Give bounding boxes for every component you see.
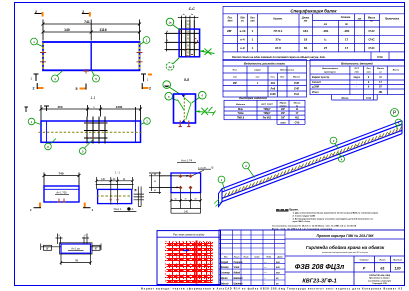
detail B plan outline [98,189,132,203]
svg-text:Кол.уч: Кол.уч [234,256,241,258]
detail C plate outline [171,173,201,193]
mesh band inner dashes [168,245,211,282]
svg-text:хххх: хххх [280,121,286,124]
beam left edge dashed rebar line [42,43,44,70]
svg-text:д 28М: д 28М [312,86,319,89]
svg-text:29Г: 29Г [281,117,286,120]
svg-text:к-9: к-9 [240,46,245,50]
svg-text:Наимен.: Наимен. [273,19,283,21]
callout circle bottom middle [92,71,100,83]
fittings header [236,103,301,108]
dimension extension lines [43,20,140,41]
svg-text:27а: 27а [275,38,280,42]
C-C centerline dashed [187,20,189,57]
svg-text:Формат вывода: чертеж сформиро: Формат вывода: чертеж сформирован в Auto… [141,288,403,291]
svg-text:1 - 1: 1 - 1 [115,172,120,175]
svg-text:17: 17 [345,38,349,42]
S-S centerline dashed [183,95,185,123]
beam elevation view outline [43,42,140,70]
svg-text:1200: 1200 [116,105,123,109]
svg-text:29Г: 29Г [281,108,286,111]
C-C brown stirrup marks [180,30,198,56]
svg-text:Р: Р [363,267,366,271]
svg-text:29Г: 29Г [281,112,286,115]
S-S callout circle top left [163,81,180,95]
organization cell [368,275,392,285]
svg-text:Б: Б [212,166,214,170]
svg-text:Всего: Всего [393,70,400,72]
узел bottom dim [60,253,92,265]
beam elevation middle joint line [90,43,92,70]
C-C section outline [179,29,200,57]
svg-text:481: 481 [295,117,300,120]
detail A dimension line 740 [43,173,81,187]
svg-text:5-5: 5-5 [184,78,189,82]
svg-text:Масса: Масса [294,103,301,105]
svg-text:Узел 1: Узел 1 [114,207,122,211]
svg-text:А: А [132,207,134,211]
svg-text:Лист: Лист [378,260,385,262]
svg-text:2x38: 2x38 [270,93,276,96]
svg-text:шт: шт [250,21,254,23]
svg-text:Обо: Обо [240,17,245,20]
svg-text:5: 5 [76,87,78,91]
svg-text:Обозначение: Обозначение [280,69,295,72]
detail C arrows to holes [159,176,188,188]
svg-text:Ат-1 700: Ат-1 700 [56,191,67,195]
specification data rows [227,29,376,50]
bottom cut symbol 5 middle [80,88,87,90]
svg-text:Смелов: Смелов [234,262,243,264]
S-S top triangle mark [181,94,186,97]
1-1 end plates [47,122,136,143]
svg-text:4и: 4и [168,65,172,69]
title block outer [219,230,405,286]
svg-text:СЧП: СЧП [294,88,299,91]
svg-text:Лн8: Лн8 [270,88,275,91]
svg-text:61: 61 [380,267,384,271]
detail B right connection lines [134,187,144,207]
svg-text:Согласовано письмом № 28-14 от: Согласовано письмом № 28-14 от 12.05 Вза… [272,225,357,228]
svg-text:зн.: зн. [241,21,245,23]
svg-text:181: 181 [303,29,308,33]
svg-text:1в: 1в [168,20,172,24]
1-1 callout circle right [141,118,151,125]
1-1 centerline dashed [39,131,144,133]
svg-text:СЧС: СЧС [368,46,375,50]
S-S bottom triangle mark [181,120,186,123]
svg-text:1-1: 1-1 [91,96,96,100]
S-S green diagonal bars [178,98,192,120]
1-1 callout circle left [28,118,41,125]
svg-text:Изделие: Изделие [236,103,246,106]
isometric rebar dots along hatch [228,130,397,194]
material list header [233,69,301,79]
svg-text:шт: шт [367,72,371,74]
S-S brown anchor marks bottom [179,121,191,128]
svg-text:2: 2 [149,87,151,91]
svg-text:Тп8м: Тп8м [238,112,244,115]
svg-text:СЧА: СЧА [377,55,383,59]
section mark near frame left [25,107,29,113]
details list header [322,68,400,74]
brown tick marks right edge [137,53,143,62]
svg-text:Расход стали на один элемент п: Расход стали на один элемент по типовой … [232,56,326,59]
svg-text:С-С: С-С [189,7,196,11]
C-C top dim ticks [178,16,199,20]
svg-text:Примеч.: Примеч. [289,208,299,211]
svg-text:Примечание: Примечание [385,19,400,21]
detail C hole diamonds [179,174,192,189]
isometric callout circle 3 [330,137,338,149]
узел right dim [91,244,102,251]
dimension line 140 / 1116 [42,31,142,34]
svg-text:Ведомость деталей: Ведомость деталей [341,62,373,66]
brown cross bottom middle [83,69,89,74]
svg-text:Ат-1 шт: Ат-1 шт [71,248,81,251]
svg-text:28Г: 28Г [227,29,232,33]
C-C rebar grid horizontals [166,33,200,49]
C-C callout circle bottom [166,58,179,70]
svg-text:Выборка изделий: Выборка изделий [239,96,267,100]
svg-text:3. Антикоррозионную защиту ста: 3. Антикоррозионную защиту стальных закл… [293,217,374,220]
mesh dotted verticals [170,242,209,283]
svg-text:мм: мм [304,21,308,23]
isometric beam end green dashes [214,199,221,207]
svg-text:Провер: Провер [220,267,229,269]
material list table grid [223,60,307,98]
svg-text:Длина: Длина [301,18,310,20]
svg-text:Сетка 8: Сетка 8 [312,81,321,84]
detail B dimension line second [96,184,134,186]
узел detail outer black outline [60,243,93,254]
1-1 stirrup group verticals [87,117,105,144]
isometric callout circle 1 [218,176,225,190]
callout circle left [31,38,43,47]
svg-text:Масса: Масса [368,18,376,20]
svg-text:4и: 4и [191,14,193,16]
isometric beam top edge [222,121,402,202]
svg-text:Масса: Масса [293,77,300,79]
svg-text:18: 18 [304,38,308,42]
S-S green arrows right [196,107,216,116]
svg-text:ТМД Г: ТМД Г [263,108,271,111]
svg-text:Стадия: Стадия [360,259,369,262]
svg-text:марка: марка [254,70,261,72]
C-C left dim ticks [165,32,170,52]
svg-text:Швдеед: Швдеед [234,277,244,280]
svg-text:Лист: Лист [243,256,249,258]
svg-text:2: 2 [35,10,37,14]
svg-text:294: 294 [271,82,276,85]
title block revision section grid [219,230,285,286]
svg-text:Млн: Млн [238,108,244,111]
detail A end elevation outline [44,186,79,202]
svg-text:стали: стали [279,105,287,107]
brown tick marks left edge [40,53,46,62]
mesh dotted border [166,242,213,283]
mesh vertical red bars [173,242,211,283]
detail B red marks [110,199,119,201]
svg-text:Поз.: Поз. [233,70,238,72]
detail B dimension line top [95,180,133,182]
detail C left dim chain [149,172,161,195]
узел top dim ticks left pair [56,234,63,245]
S-S callout circle left [165,92,177,100]
svg-text:450: 450 [57,105,62,109]
isometric beam left end face [219,189,223,207]
svg-text:-481: -481 [343,29,349,33]
mesh blue dash mark [183,249,189,251]
section mark 1 bottom left [34,74,39,82]
specification table grid [223,7,405,61]
узел left dim [41,244,61,251]
C-C rebar grid verticals [182,20,195,57]
svg-text:Ndted: Ndted [234,272,241,275]
svg-text:Каркас простр.: Каркас простр. [312,76,330,79]
svg-text:Разраб: Разраб [220,261,229,264]
svg-text:ГЛ 8.1: ГЛ 8.1 [274,29,283,33]
fittings table grid [224,100,305,124]
svg-text:СЧб: СЧб [295,121,300,124]
section mark at 1-1 dim start [44,106,49,112]
svg-text:Подп.: Подп. [266,255,272,258]
svg-text:1116: 1116 [99,28,106,32]
svg-text:17: 17 [345,46,349,50]
узел detail blue plate [61,244,91,253]
svg-text:Итого: Итого [342,97,349,100]
1-1 dimension line [40,105,143,121]
svg-text:27: 27 [324,46,328,50]
mesh thick red vertical [196,241,198,284]
callout circle right [140,37,150,45]
fittings data [237,108,300,124]
svg-text:шт: шт [233,77,237,79]
svg-text:Наименование: Наименование [322,68,339,70]
svg-text:-481: -481 [322,29,328,33]
detail A brown anchor marks [58,199,66,203]
svg-text:СЧС: СЧС [368,29,375,33]
isometric callout circle 4 [338,153,345,163]
detail C bottom dims [170,189,202,213]
svg-text:ОТКРЫТОЕ АКЦ. ОБЩ: ОТКРЫТОЕ АКЦ. ОБЩ [369,275,390,277]
svg-text:Проектный и научно-: Проектный и научно- [369,277,390,280]
1-1 beam outline [41,121,141,142]
svg-text:Ведомость расхода стали: Ведомость расхода стали [244,62,285,66]
1-1 callout circle bottom left [45,139,56,150]
svg-text:2: 2 [33,87,35,91]
svg-text:дет: дет [228,20,233,23]
reinforcement mesh panel border [157,231,221,285]
svg-text:кол: кол [256,77,260,79]
svg-text:Кол: Кол [280,77,285,79]
svg-text:нфийи: нфийи [220,277,228,280]
svg-text:Швдеед: Швдеед [234,282,244,285]
svg-text:Масса: Масса [377,68,384,70]
svg-text:2: 2 [82,10,84,14]
bottom cut symbol 2 right [142,87,149,89]
detail A cut symbol 1 left [39,203,41,209]
svg-text:к-10: к-10 [240,29,246,33]
svg-text:Рас чная схема на осадку: Рас чная схема на осадку [173,233,205,237]
C-C callout circle top [166,18,180,30]
1-1 brown junction dots [86,122,106,139]
svg-text:от: от [324,24,327,26]
svg-text:Лвдсод: Лвдсод [219,282,229,285]
S-S callout circle right [192,91,206,103]
svg-text:Гипроруда СПб: Гипроруда СПб [372,282,387,285]
isometric beam hatch [224,127,402,198]
stage cells header [360,259,403,262]
svg-text:СЧП: СЧП [294,82,299,85]
green stamp mark P [391,109,399,117]
details list table grid [310,60,405,101]
mesh horizontal red bands [167,244,213,283]
svg-text:ОСТ, ГОСТ: ОСТ, ГОСТ [261,104,273,106]
isometric callout circle 2 [243,162,255,177]
svg-text:серии 2.440-1 в 2 слоя: серии 2.440-1 в 2 слоя [293,220,311,223]
svg-text:Сеч.: Сеч. [270,77,275,79]
svg-text:б: б [201,94,203,98]
svg-text:подвесной монорельсовый путь к: подвесной монорельсовый путь клд 8.5 м д… [322,251,368,254]
svg-text:Итого: Итого [312,91,319,94]
svg-text:ГМ: ГМ [75,260,78,263]
svg-text:2. Сталь марки С245: 2. Сталь марки С245 [293,214,316,217]
material list data [233,82,299,96]
detail A inner flange line [44,188,79,190]
svg-text:Лм М11: Лм М11 [263,117,272,120]
svg-text:97.8: 97.8 [275,46,281,50]
specification header texts [228,17,400,27]
section cut symbol 2 (top left) [35,13,42,15]
title block right section grid [285,239,405,286]
detail A cut symbol 1 right [84,203,86,209]
svg-text:Спецификация балок: Спецификация балок [290,8,337,13]
svg-text:ОСТ: ОСТ [354,68,359,70]
svg-text:Сечение: Сечение [341,17,351,19]
detail B centerline dashed [97,195,133,197]
svg-text:1. Для изготовления балок прим: 1. Для изготовления балок применять бето… [293,212,379,215]
svg-text:740: 740 [58,172,63,176]
svg-text:Дата: Дата [277,256,283,258]
svg-text:ГМВ.8: ГМВ.8 [237,117,245,120]
C-C green arrow marker right [200,49,215,56]
svg-text:тмд в: тмд в [353,76,360,79]
svg-text:№док: №док [254,255,259,258]
svg-text:т/м: т/м [355,72,360,74]
overall dimension line 741 [42,23,142,26]
details list data [312,76,383,100]
section cut symbol 2 (top middle) [82,13,89,15]
svg-text:исследоват. институт: исследоват. институт [368,279,392,282]
1-1 callout circle bottom middle [79,140,93,155]
isometric callout circle 5 [395,119,402,128]
svg-text:ФЗВ 208 ФЦ3л: ФЗВ 208 ФЦ3л [295,264,345,271]
scale dashes under isometric [276,210,289,211]
svg-text:741: 741 [84,20,90,24]
1-1 stirrup group horizontals [84,123,108,138]
svg-text:120: 120 [394,267,401,271]
svg-text:Кол: Кол [250,18,255,20]
узел top dim ticks right pair [82,234,89,245]
svg-text:Кол: Кол [367,68,372,70]
revision header texts [224,255,283,258]
detail B bolt lines [97,177,133,205]
svg-text:СЧС: СЧС [368,38,375,42]
signature rows [219,261,280,286]
svg-text:Н.контр: Н.контр [220,273,230,275]
svg-text:Поз.: Поз. [228,18,233,20]
svg-text:481: 481 [379,91,384,94]
stage cells values [363,267,402,271]
svg-text:арматуры: арматуры [324,72,336,74]
svg-text:28Г: 28Г [233,82,238,85]
section mark 1 bottom right [141,74,146,82]
svg-text:84: 84 [304,46,308,50]
svg-text:140: 140 [64,28,70,32]
svg-text:Листов: Листов [392,260,402,262]
callout circle bottom left [52,71,64,83]
svg-text:КВГ23-3ГФ-1: КВГ23-3ГФ-1 [302,279,336,285]
svg-text:к-4: к-4 [240,38,245,42]
svg-text:СЧ1: СЧ1 [366,97,371,100]
svg-text:Ат-1 Г4: Ат-1 Г4 [180,158,192,162]
svg-text:Члад: Члад [234,266,240,269]
svg-text:Гирлянда обойма крана на обвяз: Гирлянда обойма крана на обвязк [306,244,385,250]
svg-text:Марка: Марка [280,103,288,105]
svg-text:Проект карьера ГМК № 203-ГМК: Проект карьера ГМК № 203-ГМК [317,234,375,238]
beam right edge dashed rebar line [139,43,141,70]
svg-text:4и: 4и [182,14,184,16]
svg-text:СЧА: СЧА [294,93,299,96]
svg-text:ТМД Г: ТМД Г [263,112,271,115]
bottom cut symbol 2 left [37,87,44,89]
S-S section outline [174,94,196,123]
